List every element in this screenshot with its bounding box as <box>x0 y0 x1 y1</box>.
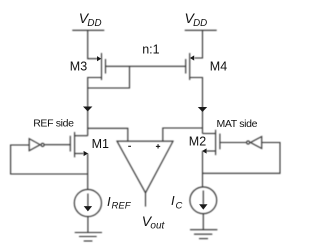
wire M3 diode connection gate-to-drain <box>88 66 130 88</box>
wire M2 source down to I_C <box>202 151 204 187</box>
label I_C <box>171 193 183 212</box>
transistor M2 gate lead <box>220 142 246 144</box>
transistor M4 channel bar <box>189 53 191 80</box>
arrowhead I_C current source <box>199 204 207 209</box>
VDD rail left <box>72 29 104 31</box>
arrowhead M2 source (NMOS) <box>202 148 207 153</box>
arrowhead I_REF current source <box>84 206 92 211</box>
svg-text:DD: DD <box>193 18 207 29</box>
svg-text:MAT side: MAT side <box>217 118 258 130</box>
current source I_REF arrow shaft <box>87 194 89 208</box>
svg-text:out: out <box>150 221 165 232</box>
arrowhead current into M2 drain <box>198 107 207 112</box>
inverter MAT-side bubble <box>247 141 250 144</box>
transistor M2 source lead <box>207 150 216 152</box>
arrowhead current into M1 drain <box>83 107 92 112</box>
svg-text:C: C <box>176 201 183 212</box>
svg-text:n:1: n:1 <box>142 42 159 56</box>
svg-text:M3: M3 <box>70 60 87 74</box>
transistor M3 channel bar <box>101 53 103 80</box>
transistor M1 gate lead <box>45 144 71 146</box>
transistor M4 gate bar <box>185 59 187 74</box>
wire VDD-left to M3 source <box>88 30 98 58</box>
wire M1 source down to I_REF <box>87 154 89 190</box>
transistor M2 gate bar <box>219 134 221 150</box>
label I_REF <box>107 194 132 212</box>
transistor M1 drain lead <box>75 135 88 137</box>
transistor M4 drain lead and wire down to node B / M2 drain <box>190 78 203 134</box>
inverter REF-side bubble <box>41 143 44 146</box>
wire REF feedback loop <box>11 145 88 174</box>
label op-amp minus input <box>128 145 131 147</box>
ground MAT side <box>190 230 217 239</box>
svg-text:M2: M2 <box>189 135 206 149</box>
svg-text:REF side: REF side <box>33 118 74 130</box>
label VDD left <box>79 10 102 29</box>
transistor M1 source lead <box>75 153 84 155</box>
arrowhead M4 source (PMOS) <box>190 55 194 60</box>
svg-text:M1: M1 <box>92 137 109 151</box>
transistor M2 drain lead <box>203 133 216 135</box>
wire VDD-right to M4 source <box>195 30 203 58</box>
arrowhead M3 source (PMOS) <box>97 56 101 61</box>
transistor M1 channel bar <box>74 132 76 157</box>
ground REF side <box>75 233 102 242</box>
label VDD right <box>185 10 208 29</box>
svg-text:I: I <box>107 194 111 209</box>
wire left drain node to op-amp minus input <box>88 128 128 141</box>
wire current-mirror gates M3-M4 <box>106 65 186 67</box>
inverter MAT-side triangle <box>251 137 262 149</box>
transistor M1 gate bar <box>69 136 71 152</box>
arrowhead M1 source (NMOS) <box>84 151 89 156</box>
wire right drain node to op-amp plus input <box>163 128 203 141</box>
op-amp output wire <box>145 193 147 207</box>
transistor M2 channel bar <box>215 130 217 155</box>
svg-text:M4: M4 <box>210 60 227 74</box>
current source I_C arrow shaft <box>202 191 204 205</box>
transistor M3 drain lead and wire down to node A / M1 drain <box>88 78 102 136</box>
label op-amp plus input <box>156 144 160 148</box>
label V_out <box>142 213 166 232</box>
wire I_C to ground <box>202 214 204 230</box>
svg-text:DD: DD <box>87 18 101 29</box>
VDD rail right <box>185 29 217 31</box>
inverter REF-side triangle <box>29 139 40 151</box>
current source I_REF circle <box>74 189 101 216</box>
transistor M3 gate bar <box>105 59 107 74</box>
svg-text:REF: REF <box>112 201 132 212</box>
current source I_C circle <box>190 187 217 214</box>
wire MAT feedback loop <box>203 143 281 174</box>
svg-text:I: I <box>171 193 175 208</box>
op-amp U1 triangle <box>117 141 173 193</box>
wire I_REF to ground <box>87 217 89 233</box>
